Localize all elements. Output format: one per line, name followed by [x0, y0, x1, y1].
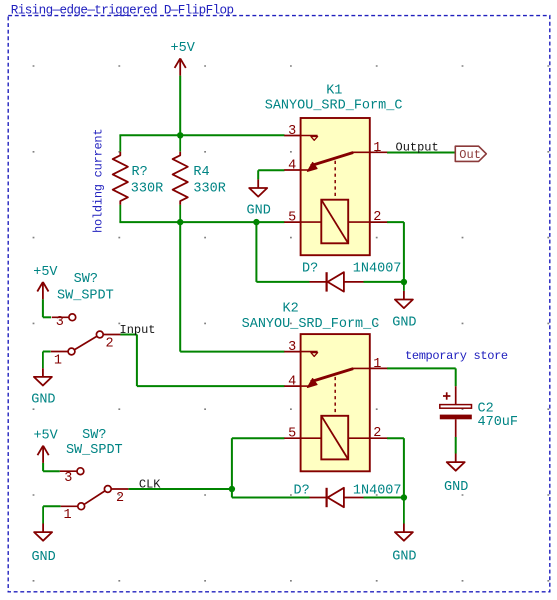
- svg-text:330R: 330R: [193, 181, 225, 196]
- svg-text:+5V: +5V: [33, 265, 58, 280]
- svg-text:SW?: SW?: [82, 428, 106, 443]
- svg-text:GND: GND: [392, 550, 416, 565]
- svg-text:4: 4: [288, 375, 296, 390]
- svg-text:CLK: CLK: [139, 477, 161, 491]
- svg-text:330R: 330R: [131, 181, 163, 196]
- svg-text:D?: D?: [294, 484, 310, 499]
- svg-text:SW_SPDT: SW_SPDT: [66, 443, 123, 458]
- svg-text:1: 1: [54, 353, 62, 368]
- svg-text:3: 3: [56, 315, 64, 330]
- svg-text:2: 2: [105, 337, 113, 352]
- svg-text:SANYOU_SRD_Form_C: SANYOU_SRD_Form_C: [265, 99, 403, 114]
- svg-text:4: 4: [288, 159, 296, 174]
- svg-text:3: 3: [64, 471, 72, 486]
- svg-text:470uF: 470uF: [478, 415, 519, 430]
- svg-text:3: 3: [288, 340, 296, 355]
- svg-text:1N4007: 1N4007: [353, 484, 402, 499]
- svg-text:5: 5: [288, 427, 296, 442]
- svg-text:SW_SPDT: SW_SPDT: [57, 288, 114, 303]
- svg-text:temporary store: temporary store: [405, 349, 508, 363]
- svg-text:SW?: SW?: [74, 272, 98, 287]
- svg-text:+5V: +5V: [171, 41, 196, 56]
- svg-text:Out: Out: [459, 148, 481, 162]
- svg-text:D?: D?: [302, 261, 318, 276]
- svg-text:R?: R?: [132, 165, 148, 180]
- svg-text:GND: GND: [444, 480, 468, 495]
- svg-text:GND: GND: [247, 204, 271, 219]
- svg-text:GND: GND: [392, 315, 416, 330]
- svg-text:5: 5: [288, 211, 296, 226]
- svg-text:SANYOU_SRD_Form_C: SANYOU_SRD_Form_C: [242, 317, 380, 332]
- svg-text:2: 2: [116, 491, 124, 506]
- svg-text:+5V: +5V: [33, 429, 58, 444]
- svg-text:Rising—edge—triggered D—FlipFl: Rising—edge—triggered D—FlipFlop: [11, 4, 234, 18]
- svg-text:Output: Output: [396, 140, 439, 154]
- svg-text:1: 1: [373, 357, 381, 372]
- svg-text:Input: Input: [120, 323, 156, 337]
- svg-text:1N4007: 1N4007: [353, 261, 402, 276]
- svg-text:2: 2: [373, 210, 381, 225]
- svg-text:GND: GND: [31, 392, 55, 407]
- svg-text:1: 1: [373, 141, 381, 156]
- svg-text:K2: K2: [282, 302, 298, 317]
- svg-text:K1: K1: [326, 83, 342, 98]
- svg-text:C2: C2: [478, 401, 494, 416]
- svg-text:2: 2: [373, 426, 381, 441]
- svg-text:GND: GND: [31, 550, 55, 565]
- svg-text:1: 1: [63, 508, 71, 523]
- svg-text:holding current: holding current: [92, 129, 106, 233]
- svg-text:3: 3: [288, 124, 296, 139]
- svg-text:R4: R4: [193, 165, 209, 180]
